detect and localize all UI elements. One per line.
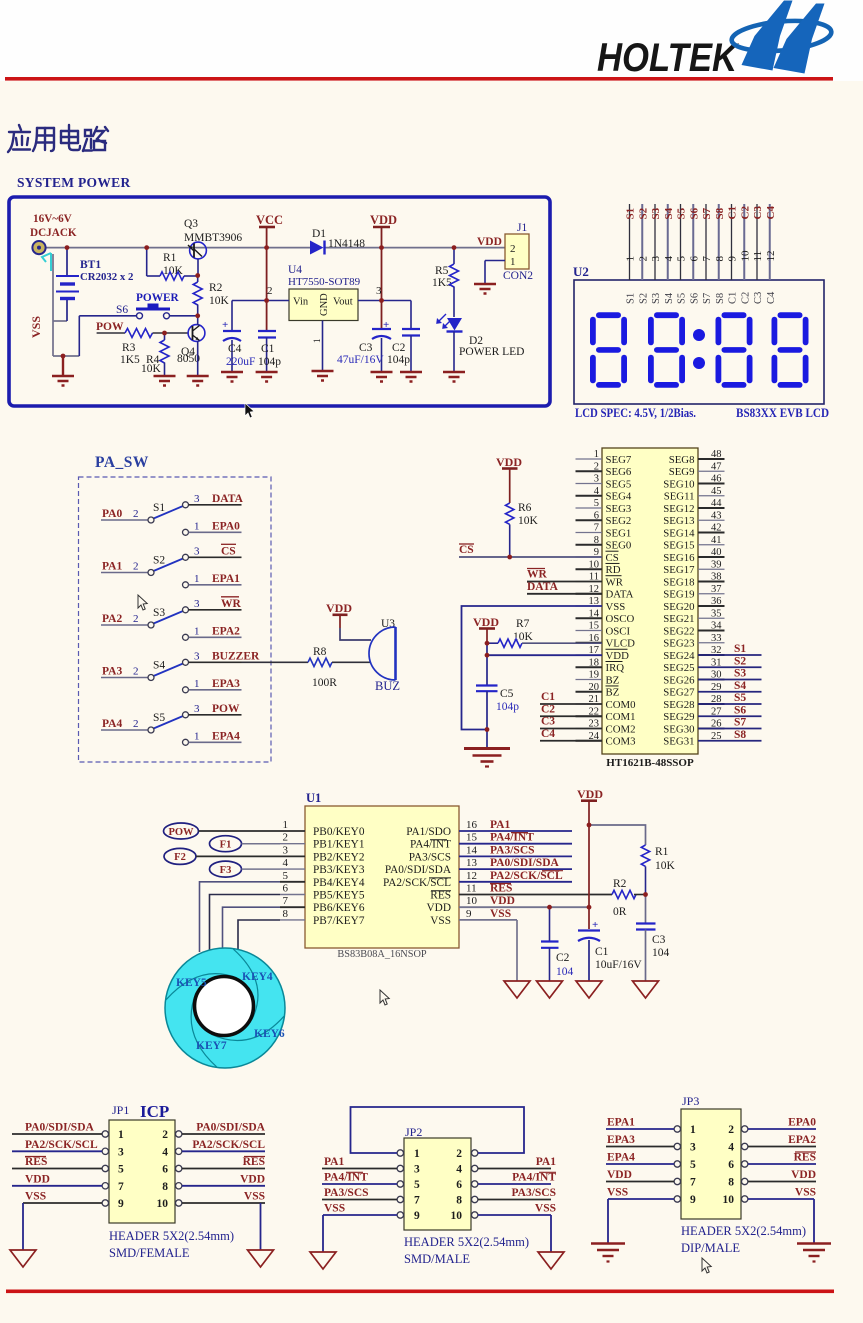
svg-text:F3: F3 (220, 865, 232, 876)
svg-text:S1: S1 (734, 643, 746, 655)
svg-text:16V~6V: 16V~6V (33, 213, 72, 225)
svg-text:8: 8 (594, 535, 599, 546)
LCD pin numbers 1-12 (625, 250, 777, 262)
svg-text:BUZZER: BUZZER (212, 650, 260, 662)
svg-text:SEG2: SEG2 (606, 515, 632, 527)
svg-text:POW: POW (212, 703, 240, 715)
svg-text:VLCD: VLCD (606, 638, 636, 650)
svg-text:OSCI: OSCI (606, 625, 631, 637)
svg-text:S1: S1 (625, 208, 637, 220)
HT1621B left pin numbers (589, 449, 600, 742)
svg-text:SEG6: SEG6 (606, 466, 632, 478)
svg-text:F1: F1 (220, 840, 232, 851)
svg-text:SMD/FEMALE: SMD/FEMALE (109, 1246, 190, 1260)
svg-text:C2: C2 (740, 292, 751, 304)
svg-text:3: 3 (194, 545, 200, 557)
switch S2 (101, 544, 242, 588)
svg-text:EPA0: EPA0 (788, 1117, 816, 1129)
svg-text:EPA2: EPA2 (212, 625, 240, 637)
svg-text:VSS: VSS (430, 915, 451, 927)
svg-text:4: 4 (728, 1142, 734, 1154)
svg-text:WR: WR (527, 569, 548, 581)
svg-text:2: 2 (456, 1148, 462, 1160)
svg-text:18: 18 (589, 657, 600, 668)
svg-text:VSS: VSS (607, 1187, 628, 1199)
svg-text:VSS: VSS (29, 316, 43, 338)
svg-text:10K: 10K (518, 515, 539, 527)
VSS wire down-left (462, 606, 603, 730)
svg-text:S4: S4 (734, 680, 746, 692)
svg-text:6: 6 (728, 1159, 734, 1171)
JP3 VSS drops to earth grounds (607, 1199, 609, 1243)
svg-text:BT1: BT1 (80, 259, 101, 271)
svg-text:VSS: VSS (490, 908, 511, 920)
svg-text:PA4: PA4 (102, 718, 122, 730)
svg-text:3: 3 (690, 1142, 696, 1154)
svg-text:C3: C3 (541, 716, 555, 728)
ground triangles (504, 981, 659, 998)
svg-text:2: 2 (637, 256, 649, 262)
svg-text:8: 8 (728, 1177, 734, 1189)
svg-text:SEG3: SEG3 (606, 503, 632, 515)
ground (HT1621 area) (464, 749, 510, 767)
svg-text:OSCO: OSCO (606, 613, 635, 625)
svg-text:VDD: VDD (370, 213, 397, 227)
svg-text:S2: S2 (153, 555, 165, 567)
svg-text:C1: C1 (727, 206, 739, 219)
svg-text:VSS: VSS (606, 601, 626, 613)
svg-text:C2: C2 (556, 952, 570, 964)
svg-text:SEG10: SEG10 (663, 478, 694, 490)
HT1621B right pin numbers (711, 449, 722, 742)
svg-text:+: + (592, 919, 598, 931)
svg-text:SEG7: SEG7 (606, 454, 632, 466)
svg-text:S3: S3 (650, 207, 662, 219)
svg-text:7: 7 (690, 1177, 696, 1189)
svg-text:R3: R3 (122, 342, 136, 354)
svg-text:C1: C1 (728, 292, 739, 304)
svg-text:8: 8 (283, 908, 289, 920)
svg-text:PA1: PA1 (324, 1156, 344, 1168)
svg-text:1: 1 (594, 449, 599, 460)
svg-text:PB7/KEY7: PB7/KEY7 (313, 915, 365, 927)
svg-text:S3: S3 (734, 668, 746, 680)
svg-text:PB6/KEY6: PB6/KEY6 (313, 902, 365, 914)
svg-text:S1: S1 (626, 293, 637, 304)
svg-text:SEG14: SEG14 (663, 527, 695, 539)
svg-text:S7: S7 (734, 717, 746, 729)
top red divider line (5, 77, 833, 81)
svg-text:S2: S2 (637, 207, 649, 219)
svg-text:4: 4 (594, 486, 600, 497)
svg-text:DIP/MALE: DIP/MALE (681, 1241, 740, 1255)
svg-text:7: 7 (701, 256, 713, 262)
svg-text:VDD: VDD (577, 787, 603, 801)
svg-text:C3: C3 (752, 206, 764, 220)
svg-text:COM3: COM3 (606, 736, 636, 748)
svg-text:PA0/SDI/SDA: PA0/SDI/SDA (196, 1122, 265, 1134)
switch S1 (101, 493, 244, 536)
svg-text:PA2/SCK/SCL: PA2/SCK/SCL (25, 1139, 98, 1151)
svg-text:35: 35 (711, 608, 722, 619)
svg-text:IRQ: IRQ (606, 662, 625, 674)
svg-text:7: 7 (414, 1195, 420, 1207)
svg-text:C3: C3 (652, 934, 666, 946)
wire: VSS left rail (53, 254, 79, 356)
svg-text:38: 38 (711, 572, 722, 583)
U1 left pin names (313, 826, 365, 927)
svg-text:5: 5 (283, 870, 289, 882)
svg-text:33: 33 (711, 633, 722, 644)
DC jack connector (32, 241, 45, 254)
svg-text:VSS: VSS (795, 1187, 816, 1199)
LCD colon (693, 329, 705, 341)
mouse cursor 2 (138, 595, 147, 610)
svg-text:U2: U2 (573, 264, 589, 279)
svg-text:BZ: BZ (606, 674, 620, 686)
svg-text:DATA: DATA (527, 581, 559, 593)
svg-text:10: 10 (589, 559, 600, 570)
svg-text:43: 43 (711, 510, 722, 521)
svg-text:20: 20 (589, 682, 600, 693)
svg-text:40: 40 (711, 547, 722, 558)
svg-text:45: 45 (711, 486, 722, 497)
svg-text:PA3/SCS: PA3/SCS (511, 1187, 556, 1199)
svg-text:S8: S8 (714, 207, 726, 219)
svg-text:PA1: PA1 (490, 819, 510, 831)
svg-text:SEG28: SEG28 (663, 699, 694, 711)
svg-text:SMD/MALE: SMD/MALE (404, 1252, 470, 1266)
svg-text:MMBT3906: MMBT3906 (184, 232, 242, 244)
svg-text:SEG11: SEG11 (664, 491, 695, 503)
svg-text:C4: C4 (766, 291, 777, 304)
svg-text:15: 15 (589, 621, 600, 632)
cyan probe hook (42, 253, 51, 271)
svg-text:SEG26: SEG26 (663, 674, 695, 686)
svg-text:C2: C2 (541, 703, 555, 715)
svg-text:3: 3 (118, 1147, 124, 1159)
svg-text:LCD SPEC: 4.5V, 1/2Bias.: LCD SPEC: 4.5V, 1/2Bias. (575, 406, 696, 420)
svg-text:14: 14 (589, 608, 600, 619)
svg-text:VSS: VSS (244, 1191, 265, 1203)
LCD digit 2 (648, 312, 685, 388)
svg-text:6: 6 (162, 1164, 168, 1176)
svg-text:4: 4 (456, 1164, 462, 1176)
svg-text:3: 3 (194, 703, 200, 715)
capacitor C3 104 (645, 895, 647, 924)
svg-text:9: 9 (727, 256, 739, 262)
svg-text:SEG31: SEG31 (663, 736, 694, 748)
svg-text:PA4/INT: PA4/INT (410, 839, 451, 851)
svg-text:6: 6 (456, 1179, 462, 1191)
svg-text:SEG21: SEG21 (663, 613, 694, 625)
svg-text:JP3: JP3 (682, 1094, 699, 1108)
svg-text:1: 1 (625, 256, 637, 262)
svg-text:S6: S6 (734, 704, 746, 716)
svg-text:WR: WR (221, 598, 242, 610)
svg-text:10K: 10K (209, 295, 230, 307)
svg-text:104p: 104p (387, 354, 410, 366)
svg-text:3: 3 (650, 256, 662, 262)
svg-text:PA2/SCK/SCL: PA2/SCK/SCL (490, 870, 563, 882)
svg-text:VCC: VCC (256, 213, 283, 227)
svg-text:12: 12 (765, 251, 777, 262)
svg-text:PB1/KEY1: PB1/KEY1 (313, 839, 364, 851)
svg-text:VDD: VDD (607, 1169, 632, 1181)
svg-text:46: 46 (711, 474, 722, 485)
svg-text:RES: RES (490, 883, 512, 895)
svg-text:2: 2 (283, 832, 289, 844)
svg-text:PA2/SCK/SCL: PA2/SCK/SCL (383, 877, 451, 889)
svg-text:100R: 100R (312, 677, 337, 689)
svg-text:Vin: Vin (293, 297, 309, 308)
svg-text:PA3/SCS: PA3/SCS (324, 1187, 369, 1199)
svg-text:S4: S4 (153, 660, 165, 672)
IC U2 HT1621B-48SSOP body (602, 448, 698, 754)
svg-text:10K: 10K (513, 631, 534, 643)
svg-text:BUZ: BUZ (375, 679, 400, 693)
svg-text:S6: S6 (116, 304, 128, 316)
svg-text:COM1: COM1 (606, 711, 636, 723)
svg-text:VSS: VSS (535, 1203, 556, 1215)
mouse cursor 1 (245, 403, 254, 418)
svg-text:PA1: PA1 (536, 1156, 556, 1168)
svg-text:C3: C3 (753, 292, 764, 304)
svg-text:PA4/INT: PA4/INT (512, 1172, 556, 1184)
VDD rail down to C1 (588, 825, 590, 929)
svg-text:220uF: 220uF (226, 356, 255, 368)
svg-text:R2: R2 (209, 282, 223, 294)
svg-text:PA3/SCS: PA3/SCS (490, 844, 535, 856)
svg-text:D1: D1 (312, 228, 326, 240)
svg-text:PB2/KEY2: PB2/KEY2 (313, 851, 365, 863)
svg-text:R1: R1 (655, 846, 669, 858)
U1 right pin names (383, 826, 452, 927)
junction dots U1 area (547, 823, 648, 910)
svg-text:3: 3 (283, 844, 289, 856)
svg-text:R6: R6 (518, 502, 532, 514)
svg-text:PA4/INT: PA4/INT (324, 1172, 368, 1184)
svg-text:S2: S2 (734, 655, 746, 667)
mouse cursor 3 (380, 990, 389, 1005)
LCD pin wires (630, 204, 770, 280)
JP2 VSS drops (322, 1215, 324, 1252)
svg-text:9: 9 (690, 1194, 696, 1206)
svg-text:SEG1: SEG1 (606, 527, 632, 539)
svg-text:GND: GND (319, 293, 330, 316)
svg-text:47: 47 (711, 461, 722, 472)
svg-text:104p: 104p (258, 356, 281, 368)
svg-text:10: 10 (157, 1198, 169, 1210)
svg-text:EPA4: EPA4 (212, 730, 240, 742)
svg-text:HT7550-SOT89: HT7550-SOT89 (288, 276, 361, 288)
svg-text:1: 1 (283, 819, 289, 831)
svg-text:S1: S1 (153, 502, 165, 514)
battery BT1 (66, 248, 68, 321)
svg-text:C4: C4 (228, 343, 242, 355)
svg-text:F2: F2 (174, 852, 186, 863)
bottom red divider line (6, 1290, 834, 1294)
title 应用电路 (drawn strokes) (8, 125, 108, 152)
svg-text:PB0/KEY0: PB0/KEY0 (313, 826, 365, 838)
svg-text:SEG22: SEG22 (663, 625, 694, 637)
svg-text:C2: C2 (739, 206, 751, 220)
svg-text:SEG23: SEG23 (663, 638, 694, 650)
svg-text:HEADER 5X2(2.54mm): HEADER 5X2(2.54mm) (109, 1229, 234, 1243)
wire VDD to R1 (589, 825, 646, 845)
svg-text:11: 11 (752, 251, 764, 262)
svg-text:3: 3 (194, 650, 200, 662)
svg-text:4: 4 (663, 256, 675, 262)
svg-text:S3: S3 (651, 293, 662, 304)
svg-text:104: 104 (556, 966, 574, 978)
svg-text:6: 6 (688, 256, 700, 262)
svg-text:7: 7 (118, 1181, 124, 1193)
svg-text:1: 1 (312, 339, 322, 344)
svg-text:SEG29: SEG29 (663, 711, 694, 723)
svg-text:2: 2 (133, 718, 139, 730)
svg-text:WR: WR (606, 576, 624, 588)
oval port F3 (210, 861, 242, 877)
svg-text:VDD: VDD (240, 1173, 265, 1185)
svg-text:R1: R1 (163, 252, 177, 264)
svg-text:PB3/KEY3: PB3/KEY3 (313, 864, 365, 876)
svg-text:Vout: Vout (333, 297, 353, 308)
LCD net labels S1-C4 (625, 206, 777, 220)
wire VDD to buzzer (340, 628, 371, 640)
svg-text:SEG27: SEG27 (663, 687, 695, 699)
svg-text:PA0/SDI/SDA: PA0/SDI/SDA (25, 1122, 94, 1134)
svg-text:6: 6 (594, 510, 599, 521)
switch S3 (101, 597, 242, 641)
switch S5 (101, 703, 242, 746)
svg-text:VDD: VDD (477, 236, 502, 248)
Holtek logo fin 2 (774, 4, 825, 74)
HT1621B right pin names SEG8-SEG31 (663, 454, 695, 748)
svg-text:15: 15 (466, 832, 478, 844)
svg-text:KEY6: KEY6 (254, 1028, 285, 1040)
svg-text:SEG19: SEG19 (663, 589, 694, 601)
svg-text:U1: U1 (306, 791, 321, 805)
svg-text:SEG24: SEG24 (663, 650, 695, 662)
svg-text:10: 10 (739, 250, 751, 262)
LCD box (574, 280, 824, 404)
U1 right pin numbers and net labels (466, 819, 563, 920)
svg-text:1: 1 (690, 1124, 696, 1136)
svg-text:SEG18: SEG18 (663, 576, 694, 588)
svg-text:R2: R2 (613, 878, 627, 890)
svg-text:PA_SW: PA_SW (95, 454, 149, 471)
svg-text:SEG30: SEG30 (663, 723, 694, 735)
wires S1-S8 nets (698, 643, 762, 741)
svg-text:J1: J1 (517, 222, 527, 234)
svg-text:SEG0: SEG0 (606, 540, 632, 552)
svg-text:CR2032 x 2: CR2032 x 2 (80, 271, 133, 283)
capacitor C4 220uF (231, 301, 233, 331)
svg-text:EPA4: EPA4 (607, 1152, 635, 1164)
svg-text:0R: 0R (613, 906, 627, 918)
svg-text:3: 3 (194, 598, 200, 610)
svg-text:POWER: POWER (136, 292, 180, 304)
VSS wire down (516, 920, 518, 981)
HT1621B left pin stubs (576, 459, 603, 741)
svg-text:EPA3: EPA3 (212, 678, 240, 690)
svg-text:DATA: DATA (606, 589, 634, 601)
svg-text:2: 2 (133, 561, 139, 573)
svg-text:2: 2 (267, 285, 273, 297)
svg-text:SYSTEM POWER: SYSTEM POWER (17, 175, 131, 190)
svg-text:R5: R5 (435, 265, 449, 277)
svg-text:S5: S5 (677, 293, 688, 304)
oval port F2 (164, 848, 196, 864)
svg-text:3: 3 (414, 1164, 420, 1176)
svg-text:PA1/SDO: PA1/SDO (406, 826, 451, 838)
svg-text:S5: S5 (734, 692, 746, 704)
svg-text:EPA0: EPA0 (212, 520, 240, 532)
svg-text:1: 1 (510, 256, 516, 268)
svg-text:RES: RES (25, 1156, 47, 1168)
svg-text:EPA1: EPA1 (212, 573, 240, 585)
svg-text:1N4148: 1N4148 (328, 238, 365, 250)
svg-text:9: 9 (118, 1198, 124, 1210)
svg-text:8: 8 (456, 1195, 462, 1207)
svg-text:9: 9 (414, 1210, 420, 1222)
svg-text:HEADER 5X2(2.54mm): HEADER 5X2(2.54mm) (681, 1224, 806, 1238)
svg-text:2: 2 (133, 666, 139, 678)
svg-text:34: 34 (711, 621, 722, 632)
JP2 pin1-pin2 loop wire (351, 1107, 525, 1153)
PA_SW dashed box (79, 477, 272, 762)
ground symbols (3-bar) (52, 284, 496, 386)
LCD digit 3 (716, 312, 753, 388)
svg-text:R7: R7 (516, 618, 530, 630)
svg-text:PA0/SDI/SDA: PA0/SDI/SDA (490, 857, 559, 869)
svg-text:S4: S4 (664, 292, 675, 304)
Holtek logo ellipse ring (730, 17, 832, 55)
U1 left pin stubs and numbers (280, 819, 305, 920)
svg-text:DCJACK: DCJACK (30, 227, 77, 239)
svg-text:CS: CS (221, 545, 236, 557)
wire: main rail (45, 247, 505, 249)
svg-text:S8: S8 (715, 293, 726, 304)
svg-text:KEY5: KEY5 (176, 977, 207, 989)
svg-text:2: 2 (594, 461, 599, 472)
svg-text:C1: C1 (261, 343, 275, 355)
svg-text:37: 37 (711, 584, 722, 595)
svg-text:R8: R8 (313, 646, 327, 658)
svg-text:C1: C1 (541, 691, 555, 703)
svg-text:POW: POW (96, 321, 124, 333)
svg-text:SEG17: SEG17 (663, 564, 695, 576)
svg-text:7: 7 (594, 523, 599, 534)
svg-text:1: 1 (194, 678, 200, 690)
svg-text:1: 1 (118, 1129, 124, 1141)
oval port F1 (210, 836, 242, 852)
svg-text:5: 5 (594, 498, 599, 509)
svg-text:SEG8: SEG8 (669, 454, 695, 466)
VDD stem down to C5 (486, 643, 488, 685)
JP1 VSS drops to ground (22, 1203, 24, 1250)
svg-text:2: 2 (162, 1129, 168, 1141)
svg-text:1: 1 (194, 730, 200, 742)
svg-text:SEG20: SEG20 (663, 601, 694, 613)
svg-text:U4: U4 (288, 264, 302, 276)
svg-text:8: 8 (714, 256, 726, 262)
svg-text:8: 8 (162, 1181, 168, 1193)
svg-text:S3: S3 (153, 607, 165, 619)
svg-text:JP2: JP2 (405, 1125, 422, 1139)
svg-text:19: 19 (589, 670, 600, 681)
